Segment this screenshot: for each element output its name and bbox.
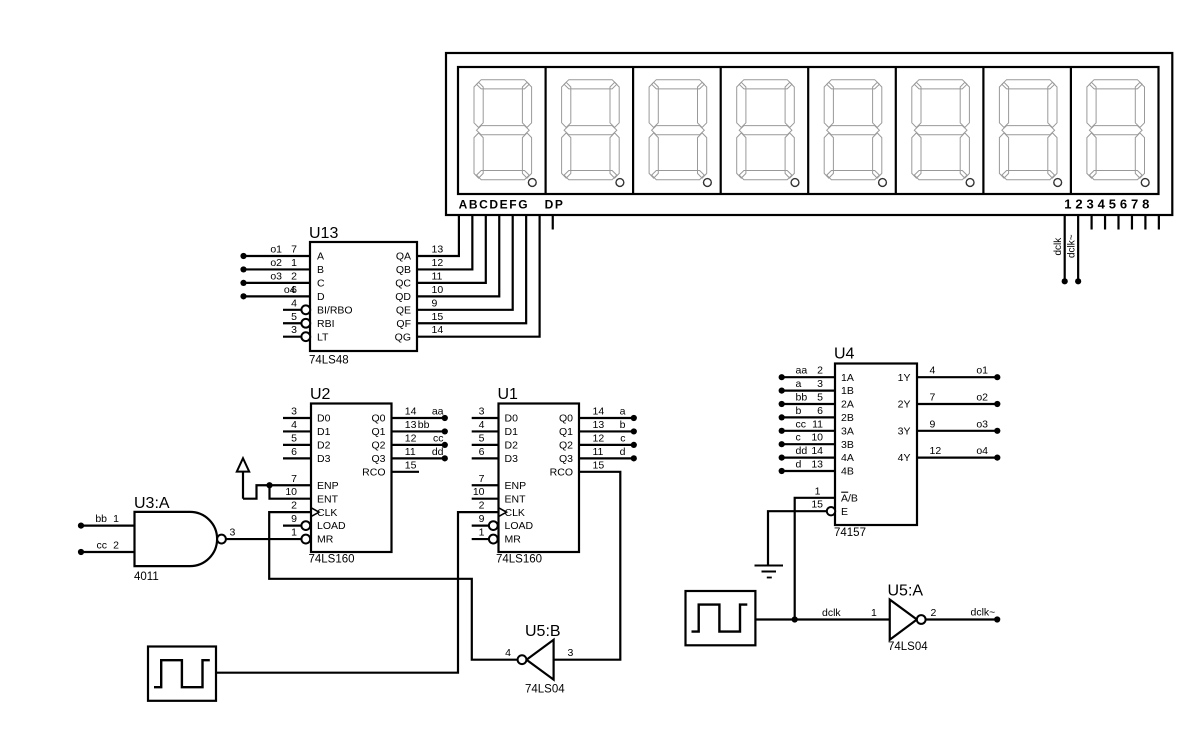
U2 LOAD pin 9 stub	[283, 524, 301, 526]
wire net aa to U4 pin 2 (1A)	[782, 376, 835, 378]
7-segment display DS1 outer body	[446, 53, 1172, 215]
svg-text:2: 2	[113, 540, 119, 552]
svg-text:D: D	[317, 291, 325, 303]
node o2	[240, 266, 246, 272]
display digit 4 7-seg outline	[737, 80, 799, 187]
svg-text:Q3: Q3	[371, 453, 385, 465]
clock generator 2 body	[686, 591, 756, 645]
svg-text:13: 13	[405, 419, 417, 431]
svg-text:ENP: ENP	[505, 480, 527, 492]
U4 E inversion bubble	[827, 507, 835, 515]
svg-text:2Y: 2Y	[898, 399, 911, 411]
U1 D1 pin 4 stub	[472, 430, 499, 432]
svg-text:14: 14	[405, 406, 417, 418]
svg-text:12: 12	[593, 432, 605, 444]
wire U1 RCO to U5:B input	[554, 472, 621, 660]
svg-text:QA: QA	[396, 251, 411, 263]
wire U2 Q1 to node bb	[392, 430, 445, 432]
svg-text:cc: cc	[796, 418, 807, 430]
svg-text:11: 11	[812, 418, 823, 430]
svg-text:1A: 1A	[841, 372, 854, 384]
node o1	[240, 253, 246, 259]
svg-text:14: 14	[811, 445, 823, 457]
node o4	[240, 293, 246, 299]
wire U3:A output to U2 MR pin 1	[226, 538, 302, 540]
svg-text:6: 6	[817, 405, 823, 417]
svg-text:RCO: RCO	[550, 466, 573, 478]
wire net bb to U3:A pin 1	[81, 524, 135, 526]
U1 ENT pin 10 stub	[472, 498, 499, 500]
svg-text:c: c	[796, 432, 801, 444]
wire U2 Q3 to node dd	[392, 457, 445, 459]
node dclk~ at display pin 2	[1075, 278, 1081, 284]
display pin DP stub	[552, 215, 554, 230]
node d	[631, 455, 637, 461]
svg-text:13: 13	[811, 459, 823, 471]
svg-text:3Y: 3Y	[898, 425, 911, 437]
svg-text:a: a	[620, 406, 626, 418]
U13 BI/RBO inversion bubble	[301, 305, 310, 314]
svg-text:3B: 3B	[841, 439, 854, 451]
svg-text:o3: o3	[976, 418, 988, 430]
svg-text:U5:A: U5:A	[888, 583, 924, 600]
svg-text:QF: QF	[396, 318, 411, 330]
svg-text:2: 2	[291, 500, 297, 512]
svg-text:2: 2	[931, 607, 937, 619]
svg-text:74LS160: 74LS160	[309, 554, 355, 566]
U1 D2 pin 5 stub	[472, 444, 499, 446]
svg-text:4: 4	[291, 419, 297, 431]
svg-text:11: 11	[593, 446, 604, 458]
wire net cc to U4 pin 11 (3A)	[782, 430, 835, 432]
U1 LOAD inversion bubble	[489, 521, 498, 530]
svg-text:5: 5	[479, 432, 485, 444]
nand-gate U3:A body	[135, 512, 218, 566]
wire net o1 to U13 pin 7 (A)	[244, 255, 311, 257]
svg-text:15: 15	[593, 459, 605, 471]
svg-text:15: 15	[432, 311, 444, 323]
node dd	[442, 455, 448, 461]
svg-text:2: 2	[291, 270, 297, 282]
svg-text:ENT: ENT	[505, 493, 527, 505]
svg-text:cc: cc	[433, 432, 444, 444]
display pin 3 stub	[1090, 215, 1092, 230]
svg-text:Q3: Q3	[559, 453, 573, 465]
wire dclk node to U4 A/B pin 1	[795, 498, 835, 620]
svg-text:o1: o1	[270, 244, 282, 256]
svg-text:10: 10	[811, 432, 823, 444]
svg-text:DP: DP	[545, 198, 565, 212]
U2 RCO pin 15 stub	[392, 471, 420, 473]
svg-text:D0: D0	[317, 413, 331, 425]
svg-text:U2: U2	[310, 386, 331, 403]
wire net c to U4 pin 10 (3B)	[782, 443, 835, 445]
display pin 4 stub	[1104, 215, 1106, 230]
node junction ENP/ENT	[266, 482, 272, 488]
svg-text:4B: 4B	[841, 466, 854, 478]
svg-text:14: 14	[593, 406, 605, 418]
wire U5:A output to node dclk~	[926, 618, 998, 620]
svg-text:12345678: 12345678	[1064, 197, 1153, 212]
wire U13 QF to display pin F	[417, 215, 526, 323]
wire clock generator to U1 CLK	[216, 512, 499, 673]
svg-text:ABCDEFG: ABCDEFG	[459, 198, 530, 212]
wire U1 Q0 to node a	[579, 417, 634, 419]
U2 MR inversion bubble	[301, 535, 310, 544]
power arrow symbol	[237, 458, 249, 499]
U13 RBI pin 5 stub	[283, 322, 301, 324]
svg-text:11: 11	[405, 446, 416, 458]
svg-text:U4: U4	[834, 346, 855, 363]
display digit 7 7-seg outline	[999, 80, 1061, 187]
display pin 6 stub	[1131, 215, 1133, 230]
op U4 body	[835, 364, 917, 526]
svg-text:6: 6	[291, 284, 297, 296]
op U1 body	[499, 404, 580, 553]
wire U1 Q1 to node b	[579, 430, 634, 432]
svg-text:QE: QE	[396, 304, 411, 316]
display digit 6 7-seg outline	[912, 80, 974, 187]
U1 CLK edge wedge	[499, 508, 507, 517]
wire U4 2Y to node o2	[917, 403, 997, 405]
svg-text:cc: cc	[97, 540, 108, 552]
node aa	[442, 415, 448, 421]
svg-text:QB: QB	[396, 264, 411, 276]
svg-text:Q2: Q2	[371, 440, 385, 452]
inverter U5:A body	[890, 600, 917, 640]
wire U13 QB to display pin B	[417, 215, 472, 269]
svg-text:9: 9	[291, 513, 297, 525]
op U13 body	[310, 242, 417, 351]
inverter U5:B body	[527, 640, 554, 680]
wire net o3 to U13 pin 2 (C)	[244, 282, 311, 284]
svg-text:Q1: Q1	[371, 426, 385, 438]
U13 LT pin 3 stub	[283, 336, 301, 338]
node dd at U4	[779, 455, 785, 461]
svg-text:1: 1	[815, 485, 821, 497]
display digit 5 7-seg outline	[824, 80, 886, 187]
wire U13 QG to display pin G	[417, 215, 540, 337]
svg-text:LOAD: LOAD	[505, 520, 534, 532]
U1 D3 pin 6 stub	[472, 457, 499, 459]
svg-text:dd: dd	[796, 445, 808, 457]
svg-text:14: 14	[432, 324, 444, 336]
svg-text:bb: bb	[95, 513, 107, 525]
clock generator 1 waveform	[154, 660, 210, 687]
wire ground to U4 E pin 15	[768, 511, 827, 565]
svg-text:ENT: ENT	[317, 493, 339, 505]
svg-text:LOAD: LOAD	[317, 520, 346, 532]
svg-text:C: C	[317, 278, 325, 290]
svg-text:b: b	[620, 419, 626, 431]
svg-text:dclk: dclk	[822, 607, 841, 619]
svg-text:9: 9	[479, 513, 485, 525]
svg-text:bb: bb	[418, 419, 430, 431]
svg-text:CLK: CLK	[317, 507, 337, 519]
U13 RBI inversion bubble	[301, 319, 310, 328]
node o1	[994, 374, 1000, 380]
svg-text:U1: U1	[498, 386, 519, 403]
display segment labels ABCDEFG DP	[459, 198, 565, 212]
U2 LOAD inversion bubble	[301, 521, 310, 530]
U13 BI/RBO pin 4 stub	[283, 309, 301, 311]
svg-text:d: d	[620, 446, 626, 458]
svg-text:1: 1	[291, 527, 297, 539]
svg-text:dd: dd	[432, 446, 444, 458]
svg-text:BI/RBO: BI/RBO	[317, 304, 353, 316]
U1 ENP pin 7 stub	[472, 484, 499, 486]
wire U13 QD to display pin D	[417, 215, 499, 296]
svg-text:2B: 2B	[841, 412, 854, 424]
node dclk at display pin 1	[1062, 278, 1068, 284]
node cc at U4	[779, 428, 785, 434]
svg-text:o3: o3	[270, 270, 282, 282]
display pin 1 wire (dclk)	[1064, 215, 1066, 281]
wire net dd to U4 pin 14 (4A)	[782, 457, 835, 459]
svg-text:6: 6	[479, 446, 485, 458]
display pin 8 stub	[1158, 215, 1160, 230]
svg-text:13: 13	[432, 244, 444, 256]
wire junction to U2 ENT	[270, 485, 312, 498]
svg-text:o2: o2	[270, 257, 282, 269]
svg-text:o1: o1	[976, 365, 988, 377]
op U2 body	[311, 404, 392, 553]
node o3	[240, 280, 246, 286]
svg-text:D3: D3	[317, 453, 331, 465]
U2 D1 pin 4 stub	[283, 430, 311, 432]
svg-text:Q1: Q1	[559, 426, 573, 438]
svg-text:o2: o2	[976, 392, 988, 404]
svg-text:b: b	[796, 405, 802, 417]
node o3	[994, 428, 1000, 434]
svg-text:RCO: RCO	[362, 466, 385, 478]
svg-text:1: 1	[291, 257, 297, 269]
node c at U4	[779, 441, 785, 447]
display digit cell frame and dividers	[458, 67, 1159, 194]
svg-text:7: 7	[930, 392, 936, 404]
wire net bb to U4 pin 5 (2A)	[782, 403, 835, 405]
svg-text:74LS04: 74LS04	[525, 684, 565, 696]
U5:B output bubble	[518, 655, 527, 664]
svg-text:10: 10	[285, 486, 297, 498]
svg-text:15: 15	[405, 459, 417, 471]
svg-text:d: d	[796, 459, 802, 471]
U1 D0 pin 3 stub	[472, 417, 499, 419]
svg-text:13: 13	[593, 419, 605, 431]
svg-text:A: A	[317, 251, 324, 263]
svg-text:11: 11	[432, 270, 443, 282]
svg-text:6: 6	[291, 446, 297, 458]
svg-text:MR: MR	[317, 534, 334, 546]
svg-text:4: 4	[505, 647, 511, 659]
svg-text:dclk~: dclk~	[970, 607, 995, 619]
pin name A/B of U4 with overbar	[841, 492, 858, 504]
svg-text:dclk~: dclk~	[1066, 234, 1077, 258]
svg-text:2: 2	[817, 365, 823, 377]
wire U2 Q2 to node cc	[392, 444, 445, 446]
svg-text:5: 5	[291, 432, 297, 444]
svg-text:9: 9	[432, 297, 438, 309]
svg-text:1B: 1B	[841, 385, 854, 397]
U1 LOAD pin 9 stub	[472, 524, 489, 526]
node cc input	[78, 549, 84, 555]
wire U1 Q2 to node c	[579, 444, 634, 446]
wire U13 QA to display pin A	[417, 215, 459, 256]
node aa at U4	[779, 374, 785, 380]
svg-text:5: 5	[291, 311, 297, 323]
svg-text:2A: 2A	[841, 399, 854, 411]
svg-text:4A: 4A	[841, 452, 854, 464]
node c	[631, 442, 637, 448]
node cc	[442, 442, 448, 448]
svg-text:D2: D2	[505, 440, 519, 452]
U2 D3 pin 6 stub	[283, 457, 311, 459]
svg-text:a: a	[796, 378, 802, 390]
U13 LT inversion bubble	[301, 332, 310, 341]
svg-text:U13: U13	[309, 225, 338, 242]
svg-text:12: 12	[432, 257, 444, 269]
wire U13 QC to display pin C	[417, 215, 486, 283]
node o2	[994, 401, 1000, 407]
svg-text:U5:B: U5:B	[525, 623, 561, 640]
svg-text:A/B: A/B	[841, 492, 858, 504]
svg-text:c: c	[620, 432, 625, 444]
U2 D2 pin 5 stub	[283, 444, 311, 446]
node dclk junction	[792, 616, 798, 622]
wire clock generator 2 to U5:A input (dclk)	[755, 618, 889, 620]
svg-text:74LS48: 74LS48	[309, 355, 349, 367]
node d at U4	[779, 468, 785, 474]
wire net cc to U3:A pin 2	[81, 551, 135, 553]
display digit 1 7-seg outline	[474, 80, 536, 187]
svg-text:D1: D1	[505, 426, 519, 438]
svg-text:RBI: RBI	[317, 318, 335, 330]
svg-text:B: B	[317, 264, 324, 276]
wire U4 1Y to node o1	[917, 376, 997, 378]
node bb	[442, 428, 448, 434]
node a	[631, 415, 637, 421]
svg-text:D0: D0	[505, 413, 519, 425]
svg-text:3: 3	[479, 406, 485, 418]
display digit 8 7-seg outline	[1087, 80, 1149, 187]
U1 MR pin 1 stub	[472, 538, 489, 540]
wire net b to U4 pin 6 (2B)	[782, 416, 835, 418]
svg-text:2: 2	[479, 500, 485, 512]
svg-text:CLK: CLK	[505, 507, 525, 519]
svg-text:bb: bb	[796, 392, 808, 404]
svg-text:4: 4	[930, 365, 936, 377]
node b at U4	[779, 414, 785, 420]
svg-text:aa: aa	[796, 365, 808, 377]
svg-text:9: 9	[930, 418, 936, 430]
wire net d to U4 pin 13 (4B)	[782, 470, 835, 472]
svg-text:1Y: 1Y	[898, 372, 911, 384]
node bb at U4	[779, 401, 785, 407]
U5:A output bubble	[917, 615, 926, 624]
svg-text:MR: MR	[505, 534, 522, 546]
svg-text:7: 7	[291, 473, 297, 485]
svg-text:3: 3	[568, 647, 574, 659]
svg-text:1: 1	[871, 607, 877, 619]
display pin 2 wire (dclk~)	[1077, 215, 1079, 281]
display digit 3 7-seg outline	[649, 80, 711, 187]
U2 D0 pin 3 stub	[283, 417, 311, 419]
ground symbol	[755, 566, 784, 578]
svg-text:Q0: Q0	[559, 413, 573, 425]
svg-text:4011: 4011	[134, 571, 159, 583]
svg-text:4: 4	[291, 297, 297, 309]
svg-text:dclk: dclk	[1053, 237, 1064, 256]
wire U2 Q0 to node aa	[392, 417, 445, 419]
svg-text:U3:A: U3:A	[134, 495, 170, 512]
svg-text:D1: D1	[317, 426, 331, 438]
svg-text:12: 12	[930, 445, 942, 457]
svg-text:10: 10	[432, 284, 444, 296]
svg-text:o4: o4	[976, 445, 988, 457]
display digit 2 7-seg outline	[562, 80, 624, 187]
svg-text:74LS160: 74LS160	[496, 554, 542, 566]
svg-text:3: 3	[291, 406, 297, 418]
node bb input	[78, 523, 84, 529]
U2 CLK edge wedge	[311, 508, 319, 517]
U3:A output bubble	[217, 535, 226, 544]
svg-text:3: 3	[817, 378, 823, 390]
wire net o2 to U13 pin 1 (B)	[244, 268, 311, 270]
svg-text:aa: aa	[432, 406, 444, 418]
svg-text:ENP: ENP	[317, 480, 339, 492]
svg-text:1: 1	[479, 527, 485, 539]
svg-text:74157: 74157	[834, 527, 866, 539]
U1 MR inversion bubble	[489, 535, 498, 544]
svg-text:4: 4	[479, 419, 485, 431]
svg-text:5: 5	[817, 392, 823, 404]
svg-text:7: 7	[291, 244, 297, 256]
svg-text:12: 12	[405, 432, 417, 444]
wire U4 3Y to node o3	[917, 430, 997, 432]
svg-text:D3: D3	[505, 453, 519, 465]
svg-text:3A: 3A	[841, 425, 854, 437]
node a at U4	[779, 388, 785, 394]
svg-text:Q0: Q0	[371, 413, 385, 425]
node o4	[994, 455, 1000, 461]
wire U13 QE to display pin E	[417, 215, 513, 310]
wire U5:B output to U2 CLK	[269, 512, 517, 660]
svg-text:4Y: 4Y	[898, 452, 911, 464]
display pin 7 stub	[1144, 215, 1146, 230]
svg-text:D2: D2	[317, 440, 331, 452]
wire net a to U4 pin 3 (1B)	[782, 390, 835, 392]
display pin 5 stub	[1117, 215, 1119, 230]
node b	[631, 428, 637, 434]
svg-text:3: 3	[291, 324, 297, 336]
svg-text:74LS04: 74LS04	[888, 641, 928, 653]
wire U4 4Y to node o4	[917, 457, 997, 459]
clock generator 2 waveform	[692, 605, 748, 632]
svg-text:Q2: Q2	[559, 440, 573, 452]
svg-text:LT: LT	[317, 331, 329, 343]
svg-text:QG: QG	[395, 331, 411, 343]
svg-text:10: 10	[473, 486, 485, 498]
wire net o4 to U13 pin 6 (D)	[244, 295, 311, 297]
node dclk~ output	[994, 616, 1000, 622]
svg-text:1: 1	[113, 513, 119, 525]
svg-text:7: 7	[479, 473, 485, 485]
wire U1 Q3 to node d	[579, 457, 634, 459]
svg-text:QC: QC	[395, 278, 411, 290]
svg-text:QD: QD	[395, 291, 411, 303]
svg-text:E: E	[841, 506, 848, 518]
wire power to U2 ENP	[243, 485, 311, 498]
